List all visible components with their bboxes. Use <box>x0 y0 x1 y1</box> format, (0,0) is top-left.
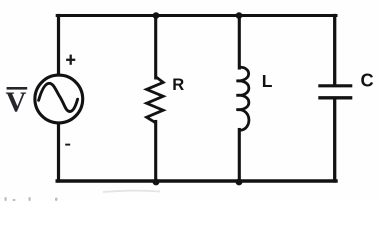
svg-text:V: V <box>6 87 27 119</box>
faint scan artifacts bottom-left <box>5 197 58 201</box>
junction node bottom-L <box>236 179 243 186</box>
svg-text:R: R <box>172 75 184 94</box>
voltage source sine wave <box>39 83 78 111</box>
wire L branch lower <box>238 130 241 182</box>
wire bottom rail <box>57 179 336 182</box>
junction node top-L <box>236 12 243 19</box>
junction node top-R <box>153 12 160 19</box>
wire left branch upper (source to top rail) <box>57 16 60 75</box>
svg-text:C: C <box>361 71 374 91</box>
resistor R zigzag <box>147 77 164 123</box>
plus sign of source <box>66 55 75 65</box>
wire left branch lower (source to bottom rail) <box>57 124 60 182</box>
capacitor C top plate <box>318 84 352 87</box>
junction node bottom-R <box>153 179 160 186</box>
wire right branch lower (capacitor to bottom rail) <box>333 99 336 181</box>
wire R branch upper <box>154 16 157 79</box>
inductor L coil <box>236 67 249 130</box>
faint smudge under bottom rail <box>103 191 160 192</box>
svg-text:L: L <box>262 71 273 91</box>
voltage source V1 circle <box>35 75 83 123</box>
minus sign of source <box>65 144 70 146</box>
wire right branch upper (top rail to capacitor) <box>333 16 336 85</box>
wire R branch lower <box>154 122 157 182</box>
overbar of V <box>7 87 28 90</box>
wire L branch upper <box>238 16 241 69</box>
capacitor C bottom plate <box>318 96 352 99</box>
wire top rail <box>57 14 336 17</box>
